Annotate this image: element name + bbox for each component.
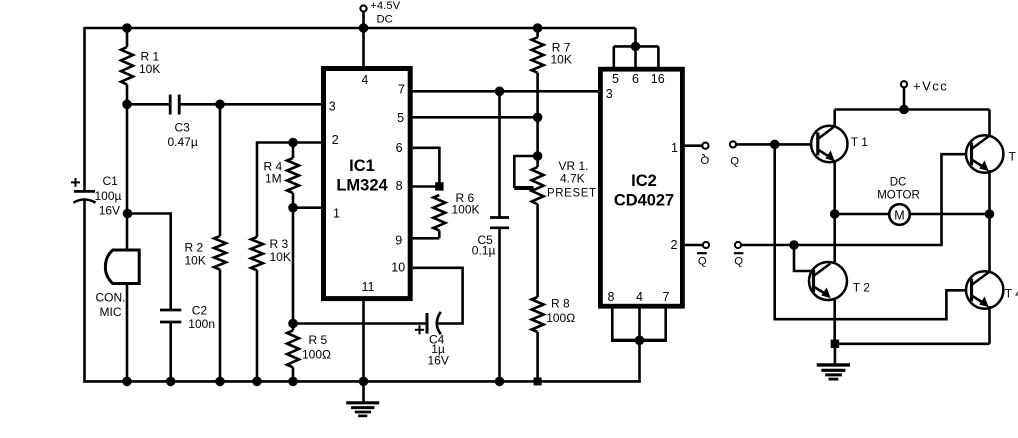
wire pin9 <box>413 237 440 240</box>
node Vcc junction <box>900 105 909 114</box>
svg-text:5: 5 <box>397 111 404 125</box>
svg-text:8: 8 <box>396 179 403 193</box>
ground symbol right <box>834 344 837 364</box>
svg-text:4: 4 <box>636 290 643 304</box>
node pin7/C5 junction <box>495 87 504 96</box>
wire T1 collector <box>833 110 836 127</box>
node pin6/pin8 junction <box>436 183 443 190</box>
resistor R4 <box>292 143 295 159</box>
wire bridge top rail <box>835 108 990 111</box>
svg-text:Q: Q <box>734 256 743 268</box>
node R8 ground <box>534 378 541 385</box>
terminal Qbar input <box>735 242 741 248</box>
+Vcc terminal <box>901 81 907 87</box>
wire T3 collector <box>988 110 991 137</box>
node supply rail junction <box>359 24 368 33</box>
svg-text:2: 2 <box>671 238 678 252</box>
svg-text:10: 10 <box>391 261 405 275</box>
node mic branch <box>123 209 132 218</box>
svg-text:1: 1 <box>671 141 678 155</box>
svg-text:T 4: T 4 <box>1005 287 1018 301</box>
svg-text:100n: 100n <box>188 317 215 331</box>
svg-text:C2: C2 <box>192 303 208 317</box>
terminal Qbar output <box>703 242 709 248</box>
wire emitter rail <box>835 342 990 345</box>
svg-text:+4.5V: +4.5V <box>370 0 400 12</box>
wire left rail lower <box>83 200 86 383</box>
wire IC2 pin1 <box>685 144 703 147</box>
wire motor line right <box>910 213 990 216</box>
wire R1 bottom to mic <box>126 85 129 251</box>
svg-text:M: M <box>894 208 904 222</box>
node C2 ground <box>166 377 175 386</box>
wire pin7 to IC2 pin3 <box>413 90 598 93</box>
wire IC2 top pin loop <box>614 45 659 48</box>
node VR1 wiper <box>533 152 542 161</box>
wire motor line left <box>835 213 890 216</box>
svg-text:9: 9 <box>395 234 402 248</box>
svg-text:Q: Q <box>698 255 707 267</box>
node IC2 pin6 top <box>631 42 640 51</box>
wire Q to T4 base <box>775 144 971 319</box>
wire pin10 <box>413 268 463 324</box>
ground symbol left <box>346 401 379 404</box>
node motor left <box>830 210 839 219</box>
svg-text:4.7K: 4.7K <box>560 171 585 185</box>
terminal Q input <box>730 141 736 147</box>
wire pin6 <box>413 148 440 187</box>
svg-text:Q: Q <box>700 153 709 165</box>
node motor right <box>985 210 994 219</box>
wire bottom ground rail <box>83 380 640 383</box>
capacitor C2 <box>160 309 181 312</box>
flip-flop IC2 CD4027 box <box>600 69 682 306</box>
wire T1 emitter to motor <box>833 160 836 263</box>
wire T4 emitter <box>988 306 991 344</box>
svg-text:5: 5 <box>612 72 619 86</box>
svg-text:3: 3 <box>606 87 613 101</box>
node R2 ground <box>216 377 225 386</box>
resistor R7 <box>536 28 539 37</box>
node pin11 ground rail <box>359 377 368 386</box>
capacitor C5 <box>498 91 501 217</box>
svg-text:16V: 16V <box>99 204 120 218</box>
preset VR1 4.7K <box>536 117 539 167</box>
resistor R2 <box>219 104 222 236</box>
wire C4 left <box>293 322 426 325</box>
svg-text:DC: DC <box>890 176 907 188</box>
resistor R1 <box>126 28 129 47</box>
node R1/C3 junction <box>123 100 132 109</box>
node mic ground <box>123 377 132 386</box>
node R5 ground <box>289 377 298 386</box>
svg-text:CD4027: CD4027 <box>614 191 674 209</box>
svg-text:0.1µ: 0.1µ <box>472 243 496 257</box>
wire mic node to C2 <box>128 214 171 311</box>
svg-text:10K: 10K <box>139 62 160 76</box>
node R7/pin5 junction <box>533 113 542 122</box>
wire IC2 bottom pins <box>611 309 614 341</box>
node R4 top <box>289 138 298 147</box>
node R1 top <box>123 24 132 33</box>
svg-text:C3: C3 <box>175 121 191 135</box>
node C5 ground <box>495 377 504 386</box>
+4.5V supply terminal <box>360 5 366 11</box>
node emitter junction <box>831 340 838 347</box>
svg-text:DC: DC <box>377 13 393 25</box>
node R4 bottom / pin1 <box>289 203 298 212</box>
svg-text:100Ω: 100Ω <box>302 347 331 361</box>
dc motor M <box>889 204 910 225</box>
svg-text:1: 1 <box>333 207 340 221</box>
wire top supply rail <box>85 27 636 30</box>
node R3 ground <box>253 377 262 386</box>
wire left rail upper <box>83 27 86 192</box>
wire rail to IC2 top pins <box>634 28 637 46</box>
node Q branch <box>770 140 779 149</box>
capacitor C3 <box>127 103 170 106</box>
transistor T3 <box>966 135 1003 172</box>
wire Qbar to T3 base <box>741 154 970 245</box>
svg-text:6: 6 <box>632 72 639 86</box>
svg-text:0.47µ: 0.47µ <box>168 135 198 149</box>
svg-text:PRESET: PRESET <box>547 188 597 200</box>
wire IC2 pin2 <box>685 244 703 247</box>
svg-text:IC2: IC2 <box>631 172 657 190</box>
wire C3 to IC1 pin3 <box>179 103 321 106</box>
node C3/R2 junction <box>216 100 225 109</box>
wire IC2 pins to ground rail <box>638 340 641 382</box>
svg-text:2: 2 <box>332 133 339 147</box>
svg-text:3: 3 <box>329 100 336 114</box>
svg-text:8: 8 <box>608 290 615 304</box>
svg-text:16V: 16V <box>428 353 449 367</box>
svg-text:MIC: MIC <box>100 305 122 319</box>
svg-text:7: 7 <box>398 83 405 97</box>
svg-text:CON.: CON. <box>96 291 126 305</box>
resistor R3 <box>257 143 322 238</box>
wire Q input to T1 base <box>736 143 816 146</box>
svg-text:+Vcc: +Vcc <box>913 79 948 94</box>
op-amp IC1 LM324 box <box>324 69 411 299</box>
capacitor C1 <box>74 190 95 193</box>
node IC2 bottom junction <box>635 336 644 345</box>
condenser microphone <box>105 250 139 284</box>
svg-text:T 1: T 1 <box>851 135 868 149</box>
svg-text:MOTOR: MOTOR <box>877 190 920 202</box>
node R5/C4 junction <box>289 319 298 328</box>
wire supply to IC1 pin4 <box>362 12 365 67</box>
node R7 top <box>533 24 542 33</box>
svg-text:10K: 10K <box>270 250 291 264</box>
svg-text:C1: C1 <box>103 174 119 188</box>
resistor R5 <box>292 208 295 331</box>
wire mic bottom <box>126 284 129 382</box>
svg-text:10K: 10K <box>185 253 206 267</box>
terminal Q output <box>702 143 708 149</box>
wire pin11 <box>362 298 365 402</box>
svg-text:LM324: LM324 <box>336 177 388 195</box>
wire pin5 to VR1 <box>413 116 538 119</box>
svg-text:100µ: 100µ <box>95 189 122 203</box>
svg-text:7: 7 <box>663 290 670 304</box>
node Qbar branch <box>790 241 799 250</box>
wire Qbar to T2 base <box>794 245 812 271</box>
resistor R8 <box>536 204 539 297</box>
wire T2 emitter <box>833 298 836 344</box>
wire pin8 <box>413 185 440 188</box>
capacitor C4 <box>426 313 429 334</box>
svg-text:11: 11 <box>362 280 375 294</box>
svg-text:100K: 100K <box>452 202 480 216</box>
svg-text:T 2: T 2 <box>853 281 870 295</box>
svg-text:T 3: T 3 <box>1009 150 1018 164</box>
svg-text:IC1: IC1 <box>349 157 375 175</box>
svg-text:16: 16 <box>651 72 665 86</box>
transistor T1 <box>811 126 847 162</box>
resistor R6 <box>433 195 445 231</box>
svg-text:Q: Q <box>730 156 739 168</box>
svg-text:R 5: R 5 <box>309 333 328 347</box>
wire T3 emitter to motor <box>988 170 991 272</box>
svg-text:4: 4 <box>361 73 368 87</box>
svg-text:1M: 1M <box>265 171 282 185</box>
wire pin1 <box>293 206 322 209</box>
svg-text:10K: 10K <box>551 52 572 66</box>
svg-text:6: 6 <box>396 141 403 155</box>
transistor T4 <box>966 271 1003 308</box>
svg-text:100Ω: 100Ω <box>546 311 575 325</box>
wire Vcc <box>903 87 906 109</box>
transistor T2 <box>809 262 847 300</box>
svg-text:R 8: R 8 <box>551 296 570 310</box>
